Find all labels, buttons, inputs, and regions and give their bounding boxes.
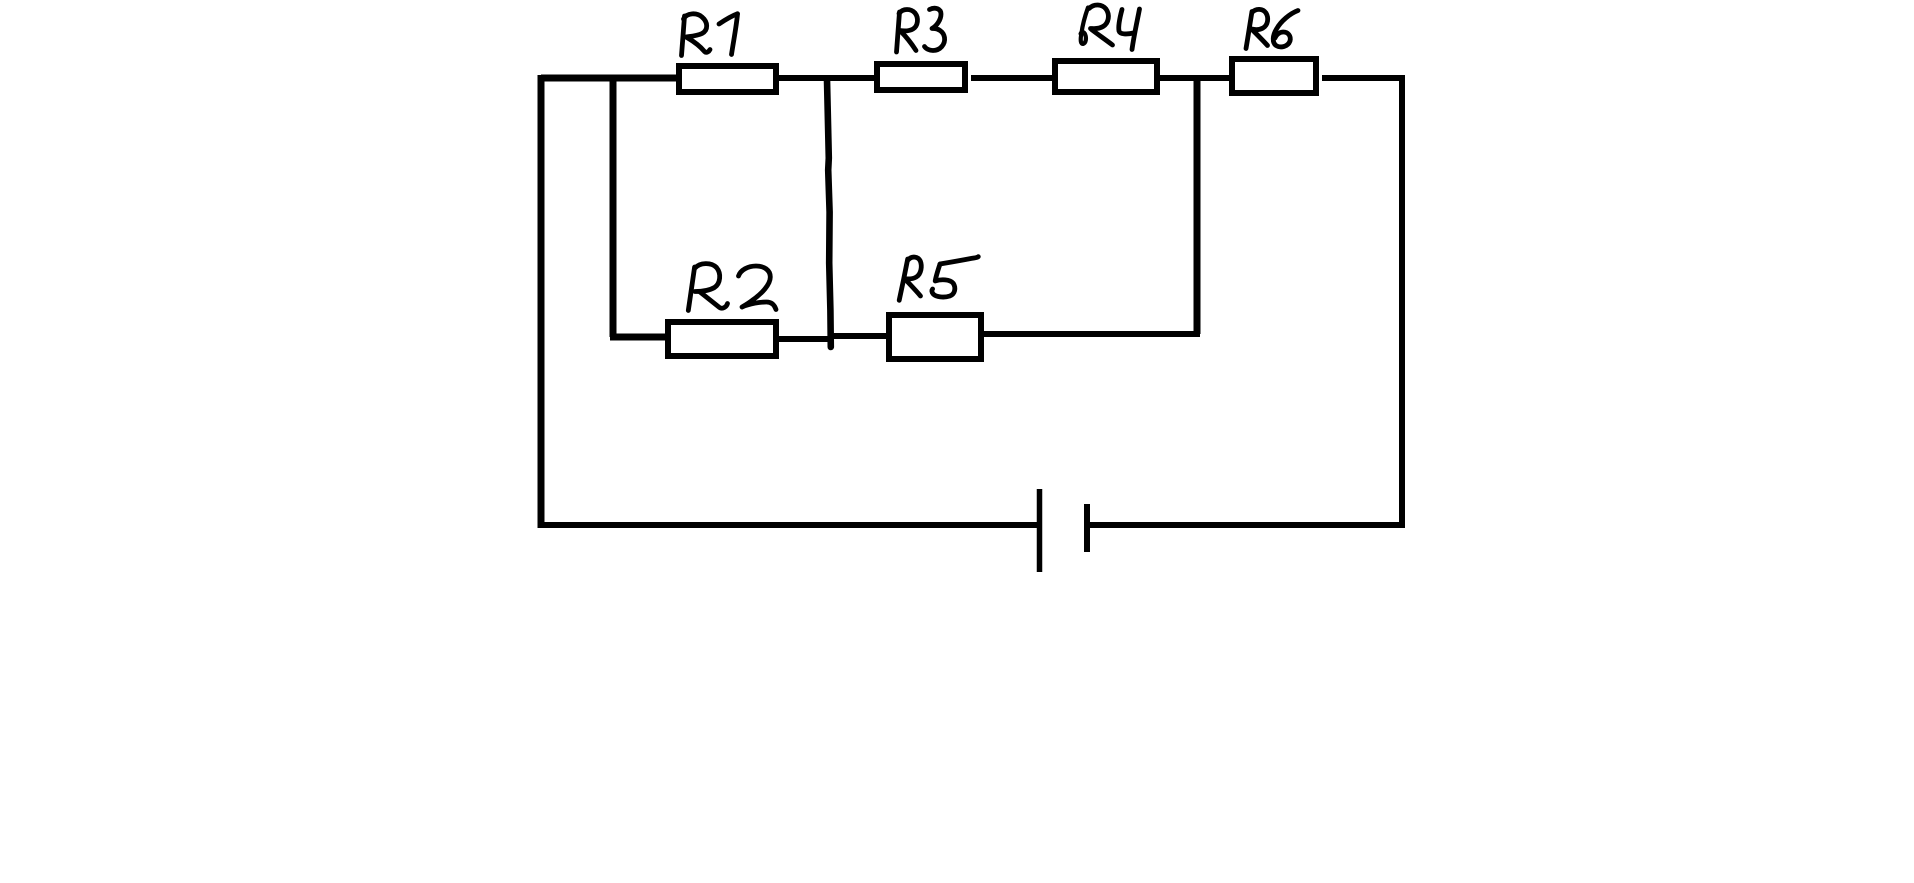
wire middle vertical (R1/R3 junction down to R2/R5 node): [827, 80, 831, 347]
wire left outer vertical: [538, 75, 545, 528]
wire R3 to R4: [971, 75, 1052, 81]
resistor R3: [877, 64, 965, 90]
wire inner-left vertical (node A to R2): [610, 78, 617, 337]
wire right-inner vertical (R4/R6 junction down to R5): [1194, 78, 1201, 334]
label R1: [682, 14, 738, 56]
battery B1 positive plate: [1037, 489, 1043, 572]
wire top-left horizontal (battery+ loop to R1): [541, 75, 676, 82]
resistor R5: [889, 315, 981, 359]
wire right outer vertical: [1399, 78, 1405, 528]
resistor R1: [679, 66, 776, 92]
wire R2 right to middle junction: [779, 336, 830, 342]
wire node A to R2 left: [610, 334, 666, 341]
wire middle junction to R5 left: [830, 333, 886, 339]
battery B1 negative plate: [1084, 504, 1090, 552]
label R4: [1081, 5, 1140, 50]
wire bottom left (to battery): [538, 522, 1040, 528]
wire top R6 to right corner: [1322, 75, 1405, 81]
label R3: [897, 8, 945, 52]
resistor R2: [668, 322, 776, 356]
label R5: [899, 257, 978, 301]
wire R4 to R6: [1160, 75, 1229, 81]
resistor R6: [1232, 59, 1316, 93]
wire R5 right to right-inner vertical: [984, 331, 1200, 337]
wire bottom right (battery to right corner): [1086, 522, 1405, 528]
label R6: [1246, 9, 1298, 48]
wire R1 to R3: [779, 75, 874, 81]
resistor R4: [1055, 61, 1157, 92]
label R2: [688, 264, 776, 311]
